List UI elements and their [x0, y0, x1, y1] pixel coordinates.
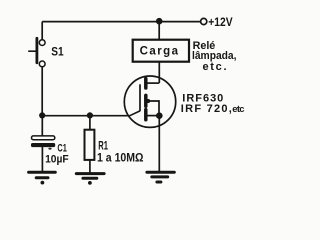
wire node to C1 top plate: [41, 116, 43, 137]
pushbutton S1: [28, 38, 45, 67]
wire C1 to ground: [41, 147, 43, 171]
label R1: [98, 141, 108, 153]
svg-text:S1: S1: [51, 44, 64, 58]
+12V supply terminal circle: [201, 18, 207, 24]
svg-text:10µF: 10µF: [45, 154, 69, 166]
polarity speck near C1 plate: [48, 148, 51, 150]
svg-text:etc: etc: [232, 104, 244, 115]
svg-text:lâmpada,: lâmpada,: [192, 50, 237, 62]
label +12V: [208, 15, 232, 29]
svg-text:+12V: +12V: [208, 15, 232, 29]
label IRF630: [182, 92, 223, 104]
wire junction dot down to load box: [158, 22, 160, 40]
wire gate node rail to transistor: [42, 115, 130, 117]
label 10uF: [45, 154, 69, 166]
wire R1 to ground: [89, 160, 91, 173]
wire from top rail down to S1: [41, 22, 43, 40]
wire top rail from S1 corner to +12V terminal: [42, 21, 200, 23]
node dot at R1 branch: [87, 112, 93, 118]
wire node to R1: [89, 116, 91, 130]
load box Carga: [133, 40, 189, 62]
transistor Q1 power MOSFET: [124, 76, 175, 127]
wire load box to drain: [158, 62, 160, 83]
ground under C1: [29, 172, 56, 184]
node junction dot top rail / load branch: [156, 18, 163, 25]
svg-text:IRF 720,: IRF 720,: [181, 103, 232, 115]
label S1: [51, 44, 64, 58]
label 1 a 10M ohm: [97, 152, 144, 164]
capacitor C1: [31, 136, 55, 147]
label Carga: [140, 46, 179, 58]
wire from S1 down to gate node rail: [41, 67, 43, 116]
svg-text:R1: R1: [98, 141, 108, 153]
ground under source: [147, 172, 174, 182]
label Rele lampada etc: [192, 40, 237, 73]
ground under R1: [76, 174, 104, 185]
svg-text:1 a 10MΩ: 1 a 10MΩ: [97, 152, 144, 164]
wire source to ground: [158, 116, 160, 171]
resistor R1: [85, 130, 95, 160]
node dot at C1 branch: [39, 112, 45, 118]
svg-text:Carga: Carga: [140, 46, 179, 58]
label IRF 720 etc: [181, 103, 245, 115]
label C1: [57, 143, 66, 155]
